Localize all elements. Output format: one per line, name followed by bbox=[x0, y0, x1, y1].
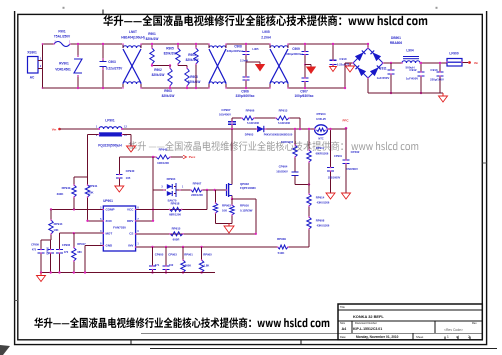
resistor RP911 bbox=[307, 128, 329, 185]
wire LP901 pin6 down bbox=[88, 135, 100, 186]
svg-text:C911: C911 bbox=[379, 67, 387, 71]
svg-text:CP903: CP903 bbox=[168, 253, 177, 257]
wire COMP line bbox=[50, 208, 104, 210]
svg-text:RP903: RP903 bbox=[222, 204, 231, 208]
svg-text:471: 471 bbox=[155, 263, 160, 267]
wire main PFC rail bbox=[122, 128, 315, 130]
svg-text:Monday, November 01, 2010: Monday, November 01, 2010 bbox=[356, 335, 399, 339]
svg-text:NTC: NTC bbox=[318, 136, 323, 140]
svg-text:Vin: Vin bbox=[52, 127, 57, 131]
border zone tick right bbox=[482, 162, 486, 164]
ground shunt bbox=[224, 224, 234, 233]
svg-text:3.5D-25: 3.5D-25 bbox=[316, 117, 326, 121]
wire bottom rail after choke2 bbox=[226, 87, 270, 89]
wire shunt bottom bbox=[216, 223, 233, 225]
svg-text:CP906: CP906 bbox=[62, 243, 71, 247]
svg-text:560K: 560K bbox=[185, 264, 191, 268]
wire output ground rail bbox=[368, 78, 443, 93]
wire Vin to LP901 bbox=[60, 128, 99, 130]
resistor RP906 snubber bbox=[232, 109, 276, 126]
svg-text:C906: C906 bbox=[241, 89, 249, 93]
svg-text:KIP-L.15512C3.01: KIP-L.15512C3.01 bbox=[353, 327, 382, 331]
bottom headline text bbox=[34, 317, 329, 328]
svg-text:330p/400Vac: 330p/400Vac bbox=[236, 94, 255, 98]
svg-text:C903: C903 bbox=[108, 60, 116, 64]
net arrow Pvcc bbox=[183, 155, 196, 159]
svg-text:LF900: LF900 bbox=[449, 52, 458, 56]
wire jog R905-R906 bbox=[178, 65, 187, 67]
wire CS line bbox=[136, 233, 256, 235]
svg-text:470: 470 bbox=[64, 250, 69, 254]
svg-text:820k/1W: 820k/1W bbox=[152, 73, 165, 77]
wire bottom rail AC bbox=[43, 87, 123, 89]
resistor RP918 bbox=[169, 202, 181, 217]
svg-text:330p/300Vac: 330p/300Vac bbox=[286, 52, 303, 56]
svg-text:F901: F901 bbox=[58, 30, 65, 34]
svg-text:R904: R904 bbox=[188, 53, 196, 57]
svg-text:220p/100V: 220p/100V bbox=[430, 78, 444, 82]
svg-text:C907: C907 bbox=[300, 89, 308, 93]
wire DRV line bbox=[136, 220, 153, 222]
svg-text:PQ3220(500)uH: PQ3220(500)uH bbox=[98, 144, 122, 148]
svg-text:DB901: DB901 bbox=[391, 36, 401, 40]
power flag ground mid bbox=[305, 65, 316, 75]
bridge rectifier DB901 bbox=[353, 36, 402, 78]
svg-text:INV: INV bbox=[128, 244, 133, 248]
svg-text:CP905: CP905 bbox=[155, 253, 164, 257]
svg-text:820k/1W: 820k/1W bbox=[146, 37, 159, 41]
svg-text:XS901: XS901 bbox=[27, 51, 37, 55]
svg-text:RP909: RP909 bbox=[277, 237, 286, 241]
svg-text:Pvcc: Pvcc bbox=[189, 155, 196, 159]
svg-text:CF910: CF910 bbox=[46, 246, 50, 254]
resistor RP914 bbox=[307, 185, 330, 207]
filter LF900 bbox=[447, 52, 462, 67]
wire AC left loop bbox=[42, 43, 54, 89]
inductor L904 bbox=[402, 49, 420, 70]
component pin end markers bbox=[40, 43, 463, 270]
wire GND pin line bbox=[85, 246, 103, 273]
wire ZCD line bbox=[86, 220, 103, 222]
svg-text:100p/630Vac: 100p/630Vac bbox=[295, 94, 314, 98]
svg-text:105/450V: 105/450V bbox=[219, 112, 231, 116]
wire VCC line bbox=[136, 208, 207, 210]
svg-text:RP908: RP908 bbox=[316, 219, 325, 223]
ground bottom rail left bbox=[37, 273, 46, 282]
resistor RP944 bbox=[49, 209, 63, 240]
svg-text:820k/1W: 820k/1W bbox=[188, 80, 201, 84]
svg-text:5.1R/1206: 5.1R/1206 bbox=[278, 121, 291, 125]
svg-text:PFC: PFC bbox=[343, 118, 350, 122]
svg-text:100R/1206: 100R/1206 bbox=[281, 141, 294, 144]
svg-text:BAV70: BAV70 bbox=[168, 199, 177, 203]
gray watermark text bbox=[128, 141, 418, 151]
connector XS901 bbox=[27, 51, 42, 80]
wire MOT line bbox=[60, 232, 104, 250]
wire top rail AC bbox=[70, 43, 122, 45]
svg-text:330p/400Vac: 330p/400Vac bbox=[227, 49, 244, 53]
border zone tick top-right bbox=[436, 7, 438, 9]
wire LF900 to Vin node bbox=[462, 62, 468, 64]
svg-text:L905: L905 bbox=[252, 47, 259, 51]
choke L902 common-mode filter bbox=[209, 44, 226, 88]
svg-text:103/1600V: 103/1600V bbox=[328, 176, 341, 180]
svg-text:KONKA 32 BEFL: KONKA 32 BEFL bbox=[353, 314, 384, 319]
svg-text:68R/1206: 68R/1206 bbox=[169, 213, 181, 217]
svg-text:RT904: RT904 bbox=[316, 112, 325, 116]
svg-text:1uF/450V: 1uF/450V bbox=[377, 76, 390, 80]
border zone tick bottom x301 bbox=[300, 340, 302, 345]
wire bridge DC out bbox=[383, 62, 402, 64]
svg-text:T5AL/250V: T5AL/250V bbox=[54, 35, 71, 39]
thermistor RT904 bbox=[315, 112, 346, 140]
svg-text:472/20KV: 472/20KV bbox=[346, 167, 358, 171]
ground under C910 bbox=[330, 67, 337, 72]
svg-text:2: 2 bbox=[468, 335, 470, 339]
svg-text:CF909: CF909 bbox=[31, 243, 39, 247]
title block title KONKA 32 BEFL bbox=[353, 314, 384, 319]
wire bridge AC feed bbox=[344, 63, 353, 89]
svg-text:820k/1W: 820k/1W bbox=[186, 58, 199, 62]
resistor RP910 bbox=[281, 128, 297, 157]
title block label Document Number bbox=[355, 321, 377, 325]
svg-text:CP402: CP402 bbox=[351, 150, 360, 154]
wire bottom rail after choke3 bbox=[288, 87, 345, 89]
svg-text:RP941: RP941 bbox=[89, 184, 98, 188]
svg-text:QP902: QP902 bbox=[240, 182, 249, 186]
svg-text:P6KV/1000B/1600D/100: P6KV/1000B/1600D/100 bbox=[264, 133, 293, 137]
svg-text:600R: 600R bbox=[173, 237, 180, 241]
title block box and dividers bbox=[338, 304, 482, 340]
title block label Sheet bbox=[416, 335, 424, 339]
wire LP901 pin10 to ground bbox=[122, 135, 131, 147]
resistor RP908 bbox=[307, 206, 330, 247]
capacitor CP903 bbox=[163, 247, 178, 274]
capacitor CF909 bbox=[31, 243, 44, 273]
wire QP902 drain bbox=[231, 129, 233, 185]
ground under CP402 bbox=[342, 193, 351, 199]
transistor QP902 MOSFET bbox=[227, 182, 257, 197]
svg-text:L904: L904 bbox=[406, 49, 413, 53]
border zone tick top-left bbox=[63, 7, 65, 9]
svg-text:R905: R905 bbox=[166, 47, 174, 51]
node Vin+ output bbox=[468, 61, 478, 65]
wire PFC node down bbox=[345, 128, 347, 156]
svg-text:R906: R906 bbox=[190, 75, 198, 79]
resistor RP941 bbox=[85, 184, 98, 221]
title block size A4 bbox=[342, 327, 348, 331]
page corner shadow bbox=[0, 345, 10, 355]
svg-text:RV901: RV901 bbox=[59, 62, 69, 66]
svg-text:COMP: COMP bbox=[106, 208, 115, 212]
svg-text:RP914: RP914 bbox=[316, 196, 325, 200]
svg-text:1: 1 bbox=[447, 335, 449, 339]
wire Pvcc vertical to VCC bbox=[152, 157, 154, 221]
svg-text:UP901: UP901 bbox=[103, 199, 113, 203]
svg-text:C909: C909 bbox=[292, 47, 300, 51]
svg-text:RP901: RP901 bbox=[184, 253, 193, 257]
resistor R905 bbox=[164, 43, 181, 66]
bottom horizontal rule line bbox=[141, 332, 338, 334]
svg-text:Title: Title bbox=[340, 305, 345, 309]
resistor RP907 bbox=[191, 181, 203, 196]
svg-text:C910: C910 bbox=[339, 57, 347, 61]
wire QP902 source bbox=[231, 196, 233, 201]
svg-text:10R/1206: 10R/1206 bbox=[157, 161, 169, 165]
border zone tick left bbox=[15, 300, 18, 302]
svg-text:RP915: RP915 bbox=[172, 226, 181, 230]
resistor RP917 bbox=[72, 233, 87, 272]
svg-text:RP905: RP905 bbox=[203, 253, 212, 257]
wire bottom ground rail bbox=[40, 271, 215, 273]
svg-text:RP907: RP907 bbox=[193, 181, 202, 185]
resistor RP940 bbox=[57, 177, 88, 209]
svg-text:10K: 10K bbox=[53, 228, 58, 232]
wire source to CS sense bbox=[232, 199, 257, 235]
title block label Rev bbox=[472, 321, 477, 325]
capacitor CP905 bbox=[149, 247, 164, 274]
svg-text:22R/1206: 22R/1206 bbox=[191, 193, 203, 197]
wire RP944 split bbox=[41, 240, 51, 250]
ground output rail bbox=[439, 93, 448, 102]
choke L905 common-mode filter bbox=[261, 30, 288, 88]
capacitor CF910 bbox=[46, 246, 55, 272]
svg-text:RP917: RP917 bbox=[77, 242, 86, 246]
fuse F901 bbox=[54, 30, 71, 47]
title block date bbox=[356, 335, 399, 339]
wire gate line bbox=[180, 189, 227, 191]
wire top rail after choke1 bbox=[141, 43, 209, 45]
svg-text:R903: R903 bbox=[164, 89, 172, 93]
svg-text:AC: AC bbox=[30, 76, 35, 80]
svg-text:10K: 10K bbox=[222, 209, 227, 213]
capacitor C910 X-cap bbox=[330, 43, 352, 67]
svg-text:0.22u/275V: 0.22u/275V bbox=[106, 67, 123, 71]
svg-text:Sheet: Sheet bbox=[416, 335, 424, 339]
resistor R906 bbox=[185, 66, 201, 90]
op-amp U901 PFC controller FAN7530 bbox=[100, 199, 139, 251]
varistor RV901 bbox=[55, 43, 82, 89]
svg-text:LP901: LP901 bbox=[105, 119, 115, 123]
svg-text:510K: 510K bbox=[278, 251, 285, 255]
choke LN0T common-mode filter bbox=[121, 30, 144, 88]
svg-text:ZCD: ZCD bbox=[106, 219, 113, 223]
resistor RP913 bbox=[276, 109, 301, 131]
title block rev code bbox=[444, 328, 463, 332]
svg-text:VDR14561: VDR14561 bbox=[55, 68, 71, 72]
capacitor C908 Y-cap bbox=[227, 43, 259, 63]
page bottom edge line bbox=[150, 347, 497, 349]
capacitor C911 bbox=[377, 63, 395, 94]
svg-text:RP916: RP916 bbox=[240, 204, 249, 208]
wire DRV to gate bbox=[152, 190, 164, 222]
capacitor CP901 with ground bbox=[326, 154, 343, 199]
title block document number bbox=[353, 327, 382, 331]
resistor RP901 bbox=[181, 247, 193, 274]
title block label Date bbox=[340, 335, 346, 339]
svg-text:Rev: Rev bbox=[472, 321, 477, 325]
svg-text:Date:: Date: bbox=[340, 335, 346, 339]
capacitor C906 Y-cap bbox=[236, 62, 255, 98]
svg-text:C913: C913 bbox=[430, 68, 438, 72]
svg-text:GND: GND bbox=[106, 244, 114, 248]
svg-text:FQPF10N60: FQPF10N60 bbox=[240, 186, 256, 190]
svg-text:820k/1W: 820k/1W bbox=[164, 52, 177, 56]
svg-text:R901: R901 bbox=[148, 32, 156, 36]
wire after L904 bbox=[420, 62, 447, 64]
svg-text:LN0T: LN0T bbox=[129, 30, 137, 34]
svg-text:CP901: CP901 bbox=[334, 154, 342, 158]
svg-text:390K: 390K bbox=[57, 192, 64, 196]
capacitor CP906 bbox=[56, 243, 71, 273]
svg-text:L905: L905 bbox=[262, 30, 269, 34]
svg-text:473: 473 bbox=[32, 249, 37, 252]
svg-text:MOT: MOT bbox=[106, 231, 113, 235]
svg-text:HB1404(100uH): HB1404(100uH) bbox=[121, 35, 144, 39]
svg-text:1.8K: 1.8K bbox=[204, 264, 210, 268]
capacitor CP907 bbox=[219, 108, 236, 130]
svg-text:DRV: DRV bbox=[127, 219, 133, 223]
node Vin+ input label bbox=[52, 127, 61, 131]
svg-text:DP903: DP903 bbox=[245, 133, 254, 137]
wire INV line bbox=[136, 246, 309, 248]
resistor R903 label bbox=[162, 89, 175, 98]
svg-text:0.12R/3W: 0.12R/3W bbox=[240, 209, 253, 213]
ground under CP940 bbox=[115, 186, 124, 192]
ground LP901 secondary bbox=[127, 146, 136, 152]
top border zone tick bbox=[102, 10, 104, 15]
svg-text:CP904: CP904 bbox=[279, 165, 288, 169]
svg-text:RP940: RP940 bbox=[62, 186, 71, 190]
svg-text:<Rev Code>: <Rev Code> bbox=[444, 328, 463, 332]
svg-text:2.2mH: 2.2mH bbox=[261, 35, 271, 39]
resistor RP916 shunt bbox=[230, 199, 253, 224]
resistor RP905 bbox=[199, 247, 212, 274]
svg-text:RP944: RP944 bbox=[54, 222, 63, 226]
svg-text:105: 105 bbox=[126, 176, 131, 180]
node PFC bbox=[343, 118, 350, 129]
svg-text:Vin: Vin bbox=[474, 61, 479, 65]
title block sheet numbers bbox=[447, 335, 470, 339]
wire top rail after choke2 bbox=[226, 43, 270, 45]
svg-text:Document Number: Document Number bbox=[355, 321, 377, 325]
svg-text:5.1R/1206: 5.1R/1206 bbox=[247, 121, 260, 125]
capacitor CP402 bbox=[343, 150, 360, 193]
svg-text:C908: C908 bbox=[234, 44, 242, 48]
transformer LP901 PFC inductor bbox=[96, 119, 128, 148]
svg-text:43K0/1206: 43K0/1206 bbox=[317, 224, 330, 228]
resistor R901 bbox=[146, 32, 159, 66]
wire top rail after choke3 bbox=[288, 43, 368, 45]
border zone tick bottom x131 bbox=[130, 340, 132, 345]
wire bottom rail after choke1 bbox=[141, 87, 209, 89]
svg-text:R902: R902 bbox=[154, 68, 162, 72]
resistor RP915 bbox=[170, 226, 183, 241]
capacitor C912 bbox=[406, 62, 425, 94]
svg-text:RP906: RP906 bbox=[246, 109, 255, 113]
svg-text:CS: CS bbox=[129, 231, 133, 235]
svg-text:RP913: RP913 bbox=[279, 109, 288, 113]
ground near bridge bbox=[346, 63, 355, 72]
capacitor C909 Y-cap bbox=[286, 43, 308, 66]
wire bridge top to rail bbox=[367, 43, 369, 48]
svg-text:43K0/1206: 43K0/1206 bbox=[317, 201, 330, 205]
svg-text:CP940: CP940 bbox=[126, 169, 135, 173]
svg-text:20K: 20K bbox=[88, 191, 93, 195]
svg-text:of: of bbox=[456, 335, 459, 339]
resistor R904 bbox=[186, 43, 199, 89]
svg-text:C912: C912 bbox=[409, 68, 417, 72]
svg-text:680R/1206: 680R/1206 bbox=[316, 152, 329, 156]
wire jog R901-R902 bbox=[151, 64, 171, 66]
capacitor CP904 bbox=[276, 157, 310, 186]
svg-text:105/250V: 105/250V bbox=[276, 170, 288, 174]
svg-text:RP911: RP911 bbox=[316, 146, 325, 150]
svg-text:DP904: DP904 bbox=[167, 177, 176, 181]
capacitor C907 Y-cap bbox=[295, 65, 314, 99]
wire aux rail bbox=[119, 156, 156, 158]
svg-text:Size: Size bbox=[340, 321, 346, 325]
capacitor CP940 bbox=[116, 157, 135, 186]
wire CP901 column top bbox=[329, 128, 331, 168]
resistor R902 bbox=[152, 66, 173, 90]
title block label Title bbox=[340, 305, 345, 309]
svg-text:RP942: RP942 bbox=[159, 148, 168, 152]
power flag ground under C908 bbox=[246, 62, 265, 72]
top headline text bbox=[103, 15, 427, 26]
svg-text:1uF/450V: 1uF/450V bbox=[406, 77, 418, 81]
diode DP903 boost diode bbox=[245, 126, 293, 137]
capacitor C913 bbox=[430, 62, 444, 93]
svg-text:102: 102 bbox=[169, 263, 174, 267]
svg-text:VCC: VCC bbox=[127, 208, 134, 212]
diode DP904 BAV70 bbox=[161, 177, 184, 202]
svg-text:820k/1W: 820k/1W bbox=[162, 94, 175, 98]
resistor RP909 bbox=[277, 237, 288, 255]
svg-text:RBA806: RBA806 bbox=[390, 41, 402, 45]
svg-text:FAN7530: FAN7530 bbox=[113, 226, 126, 230]
resistor RP942 bbox=[156, 148, 183, 165]
svg-text:680: 680 bbox=[77, 250, 82, 254]
wire VCC to gate junction bbox=[206, 190, 208, 209]
svg-text:CP907: CP907 bbox=[221, 108, 231, 112]
resistor RP903 bbox=[213, 190, 231, 224]
title block label Size bbox=[340, 321, 346, 325]
capacitor C903 bbox=[100, 43, 124, 89]
